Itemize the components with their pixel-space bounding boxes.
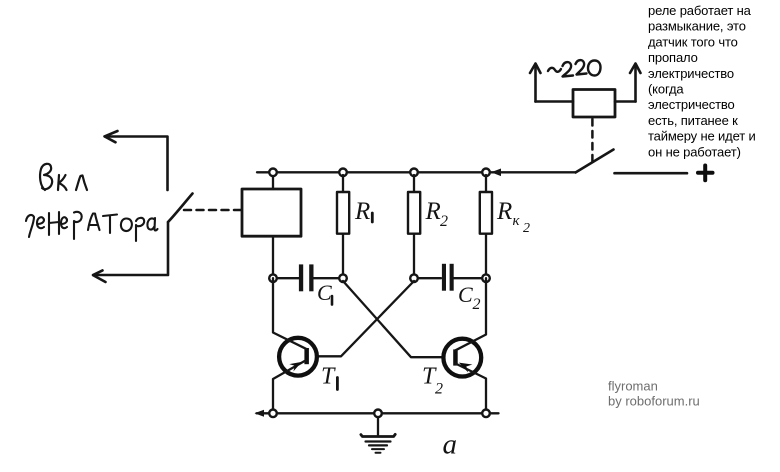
svg-text:flyroman: flyroman <box>608 379 658 394</box>
timer box U1 <box>242 189 301 236</box>
svg-text:есть, питанее к: есть, питанее к <box>648 113 738 128</box>
switch S2 blade <box>168 194 193 223</box>
label T1 <box>321 364 337 390</box>
label C1 <box>317 280 332 305</box>
wire timer box to node A <box>272 236 274 278</box>
plus terminal <box>698 166 713 181</box>
transistor T1 <box>273 278 317 413</box>
svg-text:a: a <box>443 429 458 461</box>
arrowhead generator lower <box>93 270 106 282</box>
svg-text:пропало: пропало <box>648 50 698 65</box>
svg-text:электричество: электричество <box>648 66 734 81</box>
arrowhead bottom rail <box>255 410 265 417</box>
label Rk2 <box>496 198 530 236</box>
capacitor C1 <box>277 264 340 291</box>
switch S1 blade <box>576 150 614 173</box>
svg-text:R: R <box>496 198 512 225</box>
node E bottom (T1 emitter) <box>269 410 277 418</box>
wire switch S2 lower <box>94 222 169 275</box>
svg-text:к: к <box>513 213 521 229</box>
handwriting генератора <box>26 212 158 241</box>
label T2 <box>422 364 443 398</box>
arrowhead on top rail <box>491 169 501 177</box>
svg-text:размыкание, это: размыкание, это <box>648 19 746 34</box>
svg-text:реле работает на: реле работает на <box>648 3 752 18</box>
annotation text block (relay note) <box>648 3 756 159</box>
resistor Rk2 <box>480 175 492 275</box>
label ~220 (handwritten) <box>548 60 601 76</box>
resistor R2 <box>408 175 420 275</box>
watermark flyroman <box>608 379 700 409</box>
ground <box>361 417 395 453</box>
node A (C1 left) <box>269 274 277 282</box>
node 1 top rail <box>269 169 277 177</box>
node 4 top rail <box>482 169 490 177</box>
mains arrow right <box>630 64 641 102</box>
label R2 <box>425 198 449 230</box>
arrowhead generator upper <box>105 131 118 142</box>
node D (C2 right / Rk2 bottom) <box>482 274 490 282</box>
label C2 <box>458 282 481 313</box>
node 3 top rail <box>410 169 418 177</box>
svg-text:R: R <box>425 198 441 225</box>
node G bottom (T2 emitter) <box>482 410 490 418</box>
transistor T2 <box>443 278 486 413</box>
svg-text:датчик того что: датчик того что <box>648 34 738 49</box>
wire mains left to relay coil <box>536 100 574 103</box>
svg-text:2: 2 <box>523 221 530 236</box>
node B (C1 right / R1 bottom) <box>339 274 347 282</box>
node F bottom (ground) <box>374 410 382 418</box>
wire to plus terminal <box>615 172 688 175</box>
svg-text:элестричество: элестричество <box>648 97 735 112</box>
resistor R1 <box>337 175 349 275</box>
capacitor C2 <box>417 264 483 291</box>
svg-text:2: 2 <box>473 296 481 313</box>
label R1 <box>354 198 372 225</box>
cross wire node B to T2 base <box>343 281 454 357</box>
node C (C2 left / R2 bottom) <box>410 274 418 282</box>
bottom rail wire <box>257 412 499 414</box>
svg-text:(когда: (когда <box>648 82 684 97</box>
relay coil K1 <box>573 90 615 118</box>
svg-text:C: C <box>317 280 332 305</box>
wire top rail to timer box <box>272 172 274 189</box>
svg-text:R: R <box>354 198 370 225</box>
dashed link relay K1 to switch S1 <box>591 119 594 163</box>
handwriting вкл <box>40 164 87 190</box>
svg-text:2: 2 <box>440 213 448 230</box>
svg-text:C: C <box>458 282 473 307</box>
wire switch S2 upper <box>105 137 168 191</box>
svg-text:by roboforum.ru: by roboforum.ru <box>608 394 700 409</box>
dashed link switch S2 to timer box <box>184 209 241 212</box>
mains arrow left <box>530 64 541 102</box>
svg-text:он не работает): он не работает) <box>648 144 741 159</box>
top rail wire <box>257 171 576 173</box>
node 2 top rail <box>339 169 347 177</box>
cross wire node C to T1 base <box>306 281 414 356</box>
wire relay coil to mains right <box>615 100 636 103</box>
svg-text:2: 2 <box>435 381 443 398</box>
svg-text:таймеру не идет и: таймеру не идет и <box>648 129 756 144</box>
svg-text:T: T <box>321 364 336 390</box>
